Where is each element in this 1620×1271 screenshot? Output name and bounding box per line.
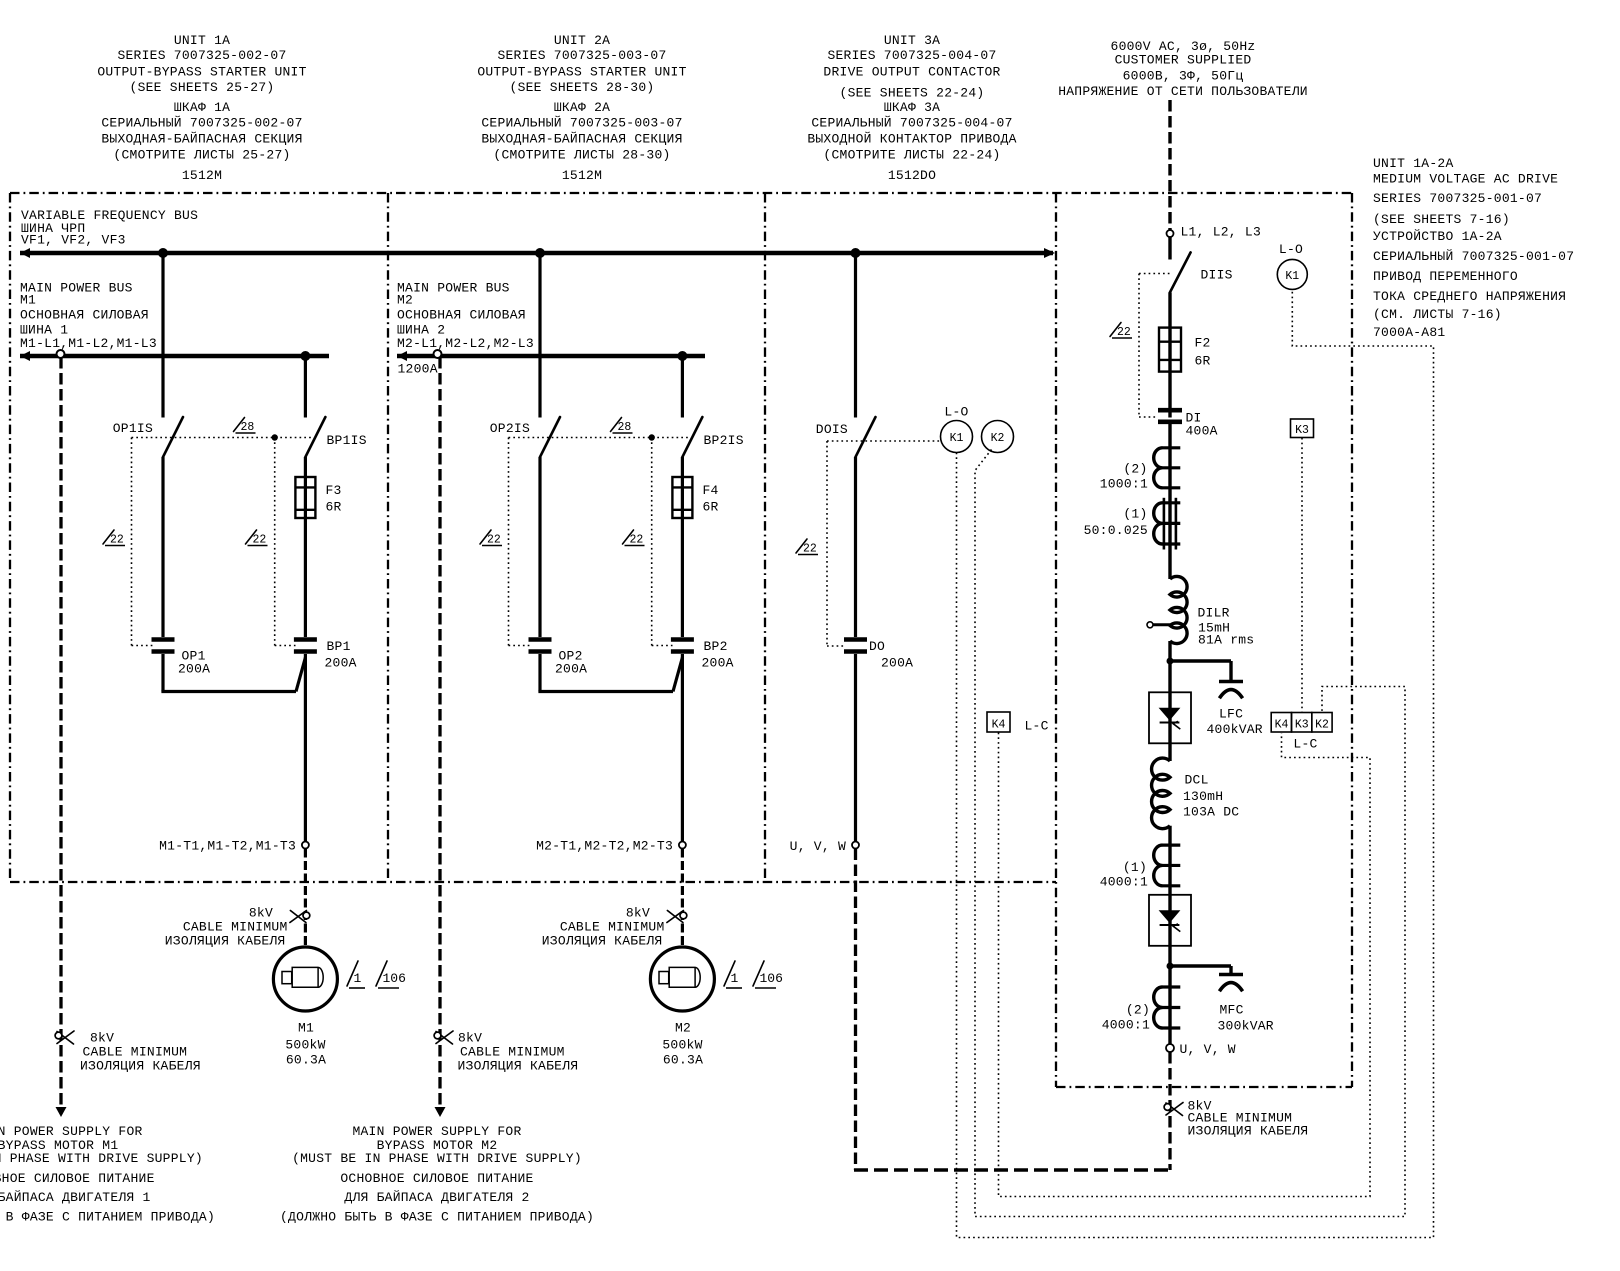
svg-text:(SEE SHEETS 25-27): (SEE SHEETS 25-27) (130, 80, 275, 95)
svg-text:(СМ. ЛИСТЫ 7-16): (СМ. ЛИСТЫ 7-16) (1373, 307, 1502, 322)
svg-text:22: 22 (803, 543, 817, 556)
svg-text:K2: K2 (1315, 719, 1329, 732)
svg-text:103A DC: 103A DC (1183, 805, 1239, 820)
svg-text:F2: F2 (1195, 336, 1211, 351)
svg-text:MFC: MFC (1220, 1003, 1244, 1018)
svg-text:ТОКА СРЕДНЕГО НАПРЯЖЕНИЯ: ТОКА СРЕДНЕГО НАПРЯЖЕНИЯ (1373, 289, 1566, 304)
svg-text:F3: F3 (326, 483, 342, 498)
svg-text:U, V, W: U, V, W (790, 839, 846, 854)
svg-text:60.3A: 60.3A (663, 1053, 703, 1068)
svg-text:1512M: 1512M (562, 168, 602, 183)
svg-text:106: 106 (383, 971, 406, 986)
svg-text:СЕРИАЛЬНЫЙ 7007325-003-07: СЕРИАЛЬНЫЙ 7007325-003-07 (481, 116, 682, 131)
svg-text:ОСНОВНАЯ СИЛОВАЯ: ОСНОВНАЯ СИЛОВАЯ (397, 308, 526, 323)
svg-text:SERIES 7007325-002-07: SERIES 7007325-002-07 (117, 48, 286, 63)
svg-text:DIIS: DIIS (1201, 268, 1233, 283)
svg-text:BP1: BP1 (327, 639, 351, 654)
svg-text:ШКАФ 1А: ШКАФ 1А (174, 100, 230, 115)
svg-text:M2: M2 (675, 1021, 691, 1036)
svg-text:CABLE MINIMUM: CABLE MINIMUM (83, 1045, 188, 1060)
svg-text:106: 106 (760, 971, 783, 986)
svg-text:1512M: 1512M (182, 168, 222, 183)
svg-text:22: 22 (630, 534, 644, 547)
svg-text:200A: 200A (325, 656, 357, 671)
svg-text:MAIN POWER BUS: MAIN POWER BUS (20, 280, 133, 295)
svg-text:OUTPUT-BYPASS STARTER UNIT: OUTPUT-BYPASS STARTER UNIT (477, 65, 686, 80)
svg-text:ИЗОЛЯЦИЯ КАБЕЛЯ: ИЗОЛЯЦИЯ КАБЕЛЯ (542, 934, 663, 949)
svg-text:CUSTOMER SUPPLIED: CUSTOMER SUPPLIED (1115, 53, 1252, 68)
svg-text:22: 22 (110, 534, 124, 547)
svg-text:(MUST BE IN PHASE WITH DRIVE S: (MUST BE IN PHASE WITH DRIVE SUPPLY) (0, 1151, 203, 1166)
svg-text:MAIN POWER SUPPLY FOR: MAIN POWER SUPPLY FOR (352, 1124, 521, 1139)
svg-text:ВЫХОДНОЙ КОНТАКТОР ПРИВОДА: ВЫХОДНОЙ КОНТАКТОР ПРИВОДА (807, 132, 1016, 147)
svg-text:УСТРОЙСТВО 1А-2А: УСТРОЙСТВО 1А-2А (1373, 229, 1502, 244)
svg-text:L1, L2, L3: L1, L2, L3 (1181, 225, 1262, 240)
svg-text:300kVAR: 300kVAR (1218, 1019, 1274, 1034)
svg-text:(1): (1) (1123, 507, 1147, 522)
svg-text:(2): (2) (1126, 1003, 1150, 1018)
svg-text:22: 22 (1117, 326, 1131, 339)
svg-text:M2-L1,M2-L2,M2-L3: M2-L1,M2-L2,M2-L3 (397, 336, 534, 351)
svg-text:8kV: 8kV (90, 1031, 114, 1046)
svg-text:K3: K3 (1295, 424, 1309, 437)
svg-text:СЕРИАЛЬНЫЙ 7007325-004-07: СЕРИАЛЬНЫЙ 7007325-004-07 (811, 116, 1012, 131)
svg-text:K4: K4 (992, 719, 1006, 732)
svg-text:ИЗОЛЯЦИЯ КАБЕЛЯ: ИЗОЛЯЦИЯ КАБЕЛЯ (458, 1059, 579, 1074)
svg-text:M1: M1 (20, 292, 36, 307)
svg-text:L-C: L-C (1293, 737, 1317, 752)
svg-text:(2): (2) (1123, 462, 1147, 477)
svg-text:DRIVE OUTPUT CONTACTOR: DRIVE OUTPUT CONTACTOR (823, 65, 1000, 80)
svg-text:BP2: BP2 (704, 639, 728, 654)
svg-text:ОСНОВНОЕ СИЛОВОЕ ПИТАНИЕ: ОСНОВНОЕ СИЛОВОЕ ПИТАНИЕ (0, 1171, 155, 1186)
svg-text:(ДОЛЖНО БЫТЬ В ФАЗЕ С ПИТАНИЕМ: (ДОЛЖНО БЫТЬ В ФАЗЕ С ПИТАНИЕМ ПРИВОДА) (280, 1210, 594, 1225)
svg-text:60.3A: 60.3A (286, 1053, 326, 1068)
svg-text:(1): (1) (1123, 860, 1147, 875)
svg-text:200A: 200A (178, 662, 210, 677)
svg-text:6R: 6R (703, 500, 719, 515)
svg-text:(СМОТРИТЕ ЛИСТЫ 25-27): (СМОТРИТЕ ЛИСТЫ 25-27) (113, 148, 290, 163)
svg-text:400A: 400A (1186, 424, 1218, 439)
svg-text:22: 22 (487, 534, 501, 547)
svg-text:(SEE SHEETS 28-30): (SEE SHEETS 28-30) (510, 80, 655, 95)
svg-text:200A: 200A (702, 656, 734, 671)
svg-text:ДЛЯ БАЙПАСА ДВИГАТЕЛЯ 1: ДЛЯ БАЙПАСА ДВИГАТЕЛЯ 1 (0, 1190, 151, 1205)
svg-text:400kVAR: 400kVAR (1207, 722, 1263, 737)
svg-text:8kV: 8kV (249, 906, 273, 921)
svg-text:1000:1: 1000:1 (1100, 477, 1148, 492)
svg-text:MAIN POWER BUS: MAIN POWER BUS (397, 280, 510, 295)
svg-text:DCL: DCL (1185, 773, 1209, 788)
svg-text:K4: K4 (1275, 719, 1289, 732)
svg-text:F4: F4 (703, 483, 719, 498)
svg-text:ДЛЯ БАЙПАСА ДВИГАТЕЛЯ 2: ДЛЯ БАЙПАСА ДВИГАТЕЛЯ 2 (344, 1190, 529, 1205)
svg-text:8kV: 8kV (626, 906, 650, 921)
svg-text:1512DO: 1512DO (888, 168, 936, 183)
svg-text:ВЫХОДНАЯ-БАЙПАСНАЯ СЕКЦИЯ: ВЫХОДНАЯ-БАЙПАСНАЯ СЕКЦИЯ (481, 132, 682, 147)
svg-text:CABLE MINIMUM: CABLE MINIMUM (560, 920, 665, 935)
svg-text:6000В, 3Ф, 50Гц: 6000В, 3Ф, 50Гц (1123, 69, 1244, 84)
svg-text:6R: 6R (326, 500, 342, 515)
svg-text:НАПРЯЖЕНИЕ ОТ СЕТИ ПОЛЬЗОВАТЕЛ: НАПРЯЖЕНИЕ ОТ СЕТИ ПОЛЬЗОВАТЕЛИ (1058, 84, 1308, 99)
svg-text:L-C: L-C (1025, 719, 1049, 734)
svg-text:K1: K1 (1285, 270, 1299, 283)
svg-text:28: 28 (241, 421, 255, 434)
svg-text:M1: M1 (298, 1021, 314, 1036)
svg-text:(ДОЛЖНО БЫТЬ В ФАЗЕ С ПИТАНИЕМ: (ДОЛЖНО БЫТЬ В ФАЗЕ С ПИТАНИЕМ ПРИВОДА) (0, 1210, 215, 1225)
svg-text:K3: K3 (1295, 719, 1309, 732)
svg-text:BP1IS: BP1IS (327, 433, 367, 448)
svg-text:DO: DO (869, 639, 885, 654)
svg-text:CABLE MINIMUM: CABLE MINIMUM (460, 1045, 565, 1060)
svg-text:DILR: DILR (1198, 606, 1230, 621)
svg-text:U, V, W: U, V, W (1180, 1042, 1236, 1057)
svg-text:4000:1: 4000:1 (1100, 875, 1148, 890)
svg-text:L-O: L-O (1279, 242, 1303, 257)
svg-text:OP2IS: OP2IS (490, 421, 530, 436)
svg-text:ИЗОЛЯЦИЯ КАБЕЛЯ: ИЗОЛЯЦИЯ КАБЕЛЯ (1188, 1124, 1309, 1139)
svg-text:СЕРИАЛЬНЫЙ 7007325-001-07: СЕРИАЛЬНЫЙ 7007325-001-07 (1373, 249, 1574, 264)
svg-text:CABLE MINIMUM: CABLE MINIMUM (183, 920, 288, 935)
svg-text:LFC: LFC (1219, 707, 1243, 722)
svg-text:1: 1 (354, 971, 362, 986)
svg-text:MAIN POWER SUPPLY FOR: MAIN POWER SUPPLY FOR (0, 1124, 143, 1139)
svg-text:OP1IS: OP1IS (113, 421, 153, 436)
svg-text:(SEE SHEETS 7-16): (SEE SHEETS 7-16) (1373, 212, 1510, 227)
svg-text:M1-T1,M1-T2,M1-T3: M1-T1,M1-T2,M1-T3 (159, 839, 296, 854)
svg-text:BP2IS: BP2IS (704, 433, 744, 448)
svg-text:SERIES 7007325-001-07: SERIES 7007325-001-07 (1373, 191, 1542, 206)
svg-text:(СМОТРИТЕ ЛИСТЫ 22-24): (СМОТРИТЕ ЛИСТЫ 22-24) (823, 148, 1000, 163)
svg-text:SERIES 7007325-004-07: SERIES 7007325-004-07 (827, 48, 996, 63)
svg-text:200A: 200A (881, 656, 913, 671)
svg-text:M2-T1,M2-T2,M2-T3: M2-T1,M2-T2,M2-T3 (536, 839, 673, 854)
svg-text:8kV: 8kV (458, 1031, 482, 1046)
svg-text:500kW: 500kW (662, 1038, 702, 1053)
svg-text:ШКАФ 3А: ШКАФ 3А (884, 100, 940, 115)
svg-text:(MUST BE IN PHASE WITH DRIVE S: (MUST BE IN PHASE WITH DRIVE SUPPLY) (292, 1151, 582, 1166)
svg-text:ШКАФ 2А: ШКАФ 2А (554, 100, 610, 115)
svg-text:22: 22 (253, 534, 267, 547)
svg-text:ИЗОЛЯЦИЯ КАБЕЛЯ: ИЗОЛЯЦИЯ КАБЕЛЯ (80, 1059, 201, 1074)
svg-text:ОСНОВНОЕ СИЛОВОЕ ПИТАНИЕ: ОСНОВНОЕ СИЛОВОЕ ПИТАНИЕ (340, 1171, 533, 1186)
svg-text:SERIES 7007325-003-07: SERIES 7007325-003-07 (497, 48, 666, 63)
svg-text:ПРИВОД ПЕРЕМЕННОГО: ПРИВОД ПЕРЕМЕННОГО (1373, 269, 1518, 284)
svg-text:(SEE SHEETS 22-24): (SEE SHEETS 22-24) (840, 86, 985, 101)
svg-text:M2: M2 (397, 292, 413, 307)
svg-text:50:0.025: 50:0.025 (1084, 523, 1148, 538)
svg-text:K1: K1 (950, 432, 964, 445)
svg-text:DOIS: DOIS (816, 422, 848, 437)
svg-text:ОСНОВНАЯ СИЛОВАЯ: ОСНОВНАЯ СИЛОВАЯ (20, 308, 149, 323)
svg-text:СЕРИАЛЬНЫЙ 7007325-002-07: СЕРИАЛЬНЫЙ 7007325-002-07 (101, 116, 302, 131)
svg-text:7000A-A81: 7000A-A81 (1373, 325, 1445, 340)
svg-text:200A: 200A (555, 662, 587, 677)
svg-text:UNIT 1A-2A: UNIT 1A-2A (1373, 156, 1454, 171)
svg-text:81A rms: 81A rms (1198, 633, 1254, 648)
svg-text:6R: 6R (1195, 354, 1211, 369)
svg-text:UNIT 2A: UNIT 2A (554, 33, 610, 48)
svg-text:500kW: 500kW (285, 1038, 325, 1053)
svg-text:MEDIUM VOLTAGE AC DRIVE: MEDIUM VOLTAGE AC DRIVE (1373, 172, 1558, 187)
svg-text:ИЗОЛЯЦИЯ КАБЕЛЯ: ИЗОЛЯЦИЯ КАБЕЛЯ (165, 934, 286, 949)
svg-text:ВЫХОДНАЯ-БАЙПАСНАЯ СЕКЦИЯ: ВЫХОДНАЯ-БАЙПАСНАЯ СЕКЦИЯ (101, 132, 302, 147)
svg-text:28: 28 (618, 421, 632, 434)
svg-text:UNIT 1A: UNIT 1A (174, 33, 230, 48)
svg-text:130mH: 130mH (1183, 789, 1223, 804)
svg-text:VF1, VF2, VF3: VF1, VF2, VF3 (21, 233, 126, 248)
svg-text:L-O: L-O (944, 405, 968, 420)
svg-text:M1-L1,M1-L2,M1-L3: M1-L1,M1-L2,M1-L3 (20, 336, 157, 351)
svg-text:4000:1: 4000:1 (1102, 1018, 1150, 1033)
svg-text:K2: K2 (991, 432, 1005, 445)
svg-text:1: 1 (731, 971, 739, 986)
svg-text:1200A: 1200A (398, 362, 438, 377)
svg-text:UNIT 3A: UNIT 3A (884, 33, 940, 48)
svg-text:(СМОТРИТЕ ЛИСТЫ 28-30): (СМОТРИТЕ ЛИСТЫ 28-30) (493, 148, 670, 163)
svg-text:OUTPUT-BYPASS STARTER UNIT: OUTPUT-BYPASS STARTER UNIT (97, 65, 306, 80)
